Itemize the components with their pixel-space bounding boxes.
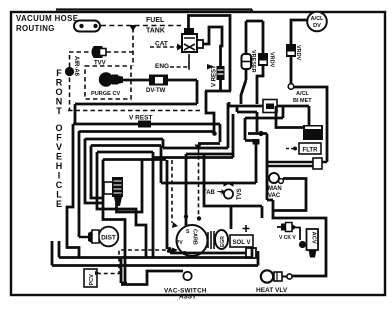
svg-text:DIST: DIST xyxy=(101,235,116,242)
wire V CK V to ACV xyxy=(296,228,300,241)
canister CANP xyxy=(182,28,203,52)
wire node to right down xyxy=(294,87,327,162)
DIST wire xyxy=(79,236,88,238)
H1 left corner down xyxy=(74,104,77,124)
wire x204 down to EGR bus xyxy=(204,154,262,229)
svg-text:ASSY: ASSY xyxy=(179,294,197,301)
svg-text:FUEL: FUEL xyxy=(146,17,165,24)
wire carb left side xyxy=(152,152,155,257)
junction arrow on fuel tank line xyxy=(129,25,137,31)
svg-text:DV-TW: DV-TW xyxy=(146,88,166,94)
title text xyxy=(16,14,78,33)
dashed hose capsule to fuel tank line xyxy=(101,25,181,27)
wire to TAB TVS xyxy=(161,146,233,184)
VRDV left wire down xyxy=(257,66,263,104)
dashed hose under H1 xyxy=(68,110,200,112)
wire TVS drop xyxy=(233,144,256,183)
svg-text:V REST: V REST xyxy=(212,65,218,87)
bus B4 xyxy=(91,144,161,147)
TVS valve xyxy=(224,181,234,187)
svg-text:PURGE CV: PURGE CV xyxy=(91,91,120,97)
wire canister spout loop xyxy=(203,27,222,91)
FLTR dashes xyxy=(286,148,293,150)
svg-text:ENG: ENG xyxy=(155,63,169,70)
ACV component xyxy=(299,241,306,248)
V REST horizontal component xyxy=(138,121,151,128)
PCV dashed wire xyxy=(97,250,172,274)
carb to EGR hatch xyxy=(208,231,214,249)
bus B6 xyxy=(103,158,166,161)
FUEL TANK label xyxy=(146,17,165,35)
svg-text:VRDV: VRDV xyxy=(295,45,301,61)
svg-text:DV: DV xyxy=(313,23,321,29)
border top doubled segment xyxy=(56,10,252,14)
svg-text:O: O xyxy=(55,123,62,133)
wire B4 left down xyxy=(91,146,103,199)
H2 inline component xyxy=(263,100,277,113)
svg-text:C: C xyxy=(56,180,63,190)
svg-text:F: F xyxy=(56,68,62,78)
wire dot to MAN VAC drop xyxy=(248,134,273,212)
svg-text:VACUUM HOSE: VACUUM HOSE xyxy=(16,14,78,23)
svg-text:E: E xyxy=(56,152,62,162)
svg-text:TAB: TAB xyxy=(203,190,216,196)
wire B5 left down xyxy=(97,152,146,258)
wire DV-TW right xyxy=(168,80,197,104)
V CK V valve xyxy=(277,226,281,228)
svg-text:CARB: CARB xyxy=(192,229,198,245)
FRONT OF VEHICLE vertical label xyxy=(55,68,62,209)
purge CV dashed box xyxy=(85,66,131,99)
DIST plug xyxy=(88,231,92,243)
svg-text:PCV: PCV xyxy=(89,274,95,286)
V REST vertical component xyxy=(217,66,225,80)
HEAT VLV xyxy=(261,270,273,282)
svg-text:H: H xyxy=(56,161,63,171)
svg-text:AIR-A6: AIR-A6 xyxy=(73,56,79,77)
canister stem wire xyxy=(189,16,231,92)
dashed CAT line xyxy=(150,46,178,48)
main bus H1 xyxy=(75,103,197,106)
svg-text:I: I xyxy=(58,171,61,181)
dashed line down from fuel tank line xyxy=(132,28,134,66)
bus B1 xyxy=(73,124,220,144)
ENG arrow blob xyxy=(207,64,214,70)
svg-text:O: O xyxy=(55,87,62,97)
dashed ENG line xyxy=(170,54,189,67)
wire mid x142 xyxy=(117,160,143,213)
TVV valve xyxy=(92,47,106,58)
capsule connector (top left) xyxy=(74,21,100,32)
dashed carb feeds xyxy=(171,160,173,223)
double wires right xyxy=(267,162,327,166)
VRESER component xyxy=(242,54,252,69)
plus sign xyxy=(243,225,250,232)
svg-text:TANK: TANK xyxy=(146,28,165,35)
svg-text:ROUTING: ROUTING xyxy=(16,24,55,33)
FLTR box xyxy=(299,143,321,154)
wire B3 left down xyxy=(85,139,103,204)
node circle xyxy=(288,84,294,90)
svg-text:VRESER: VRESER xyxy=(250,50,256,73)
svg-text:TVS: TVS xyxy=(237,188,243,200)
svg-text:MAN: MAN xyxy=(268,186,282,192)
svg-text:E: E xyxy=(56,199,62,209)
svg-text:VRV: VRV xyxy=(307,133,319,139)
svg-text:A/CL: A/CL xyxy=(311,16,324,22)
EGR oval xyxy=(215,230,228,249)
svg-text:BI MET: BI MET xyxy=(293,98,312,104)
MAN VAC circle xyxy=(269,173,279,183)
svg-text:FLTR: FLTR xyxy=(303,148,319,154)
wire A/CL DV left and down xyxy=(291,20,307,84)
svg-text:F: F xyxy=(56,133,62,143)
bus right stair from x237 xyxy=(237,106,257,132)
bus B3 xyxy=(85,103,228,148)
wire VRV left xyxy=(276,106,303,128)
wire carb feed solid xyxy=(186,114,233,226)
VRDV right component xyxy=(286,44,296,57)
VRV component xyxy=(303,125,323,140)
SOL V box xyxy=(230,235,253,247)
VRESER loop xyxy=(241,21,263,104)
wire B2 left down xyxy=(78,131,81,237)
canister dashed bottom xyxy=(188,54,190,70)
svg-text:VAC: VAC xyxy=(268,193,281,199)
wire MAN VAC right xyxy=(273,179,326,277)
svg-text:L: L xyxy=(56,190,62,200)
wire purge to DV-TW xyxy=(121,79,149,82)
wire x245 down xyxy=(245,118,253,141)
H2 bus xyxy=(229,102,309,126)
wire B1 left down to DIST xyxy=(67,124,79,258)
PCV box xyxy=(84,269,97,287)
svg-text:V: V xyxy=(56,142,62,152)
dashed vertical line left (A6 line) xyxy=(69,55,71,110)
DV-TW valve xyxy=(149,75,168,86)
svg-text:A/CL: A/CL xyxy=(296,91,309,97)
svg-text:SOL V: SOL V xyxy=(233,240,251,246)
junction dot xyxy=(258,131,263,136)
bus B2 xyxy=(79,130,214,133)
wire B6 left down xyxy=(103,160,125,285)
svg-text:PV: PV xyxy=(176,240,183,246)
bus B5 xyxy=(97,151,153,154)
svg-text:R: R xyxy=(56,78,63,88)
carburetor circle xyxy=(177,225,208,256)
arrow B1 down xyxy=(195,145,202,151)
svg-text:N: N xyxy=(56,97,63,107)
A/CL DV circle xyxy=(307,12,327,32)
VAC-SWITCH wire xyxy=(121,258,183,285)
svg-text:VRDV: VRDV xyxy=(269,52,275,68)
svg-text:V REST: V REST xyxy=(129,115,153,122)
wire y118 xyxy=(245,106,283,118)
svg-text:V CK V: V CK V xyxy=(279,235,296,241)
svg-text:T: T xyxy=(56,106,62,116)
wire x167 xyxy=(167,160,177,253)
VCV component xyxy=(104,177,123,206)
lower bus lines xyxy=(170,252,248,255)
svg-text:EGR: EGR xyxy=(220,236,226,247)
purge CV valve xyxy=(99,72,123,86)
svg-text:ACV: ACV xyxy=(311,232,317,244)
TVV dashed line xyxy=(69,51,133,53)
svg-text:HEAT VLV: HEAT VLV xyxy=(256,287,288,294)
wire y157 return xyxy=(153,156,233,159)
node on A6 line xyxy=(65,67,74,76)
DIST circle xyxy=(99,227,119,247)
VRDV left component xyxy=(258,53,268,66)
wire jog y91 xyxy=(205,91,231,134)
